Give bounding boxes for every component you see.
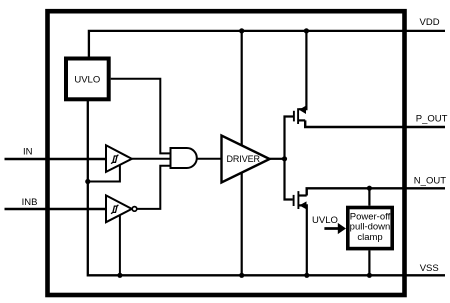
svg-text:DRIVER: DRIVER [227, 154, 261, 164]
svg-text:clamp: clamp [357, 232, 382, 243]
svg-text:UVLO: UVLO [74, 75, 100, 86]
svg-text:INB: INB [22, 197, 38, 208]
svg-text:IN: IN [23, 146, 33, 157]
svg-text:VSS: VSS [420, 263, 439, 274]
svg-text:UVLO: UVLO [312, 215, 338, 226]
svg-text:P_OUT: P_OUT [416, 114, 448, 125]
svg-text:VDD: VDD [420, 17, 440, 28]
svg-text:pull-down: pull-down [350, 222, 391, 233]
svg-text:N_OUT: N_OUT [414, 175, 446, 186]
